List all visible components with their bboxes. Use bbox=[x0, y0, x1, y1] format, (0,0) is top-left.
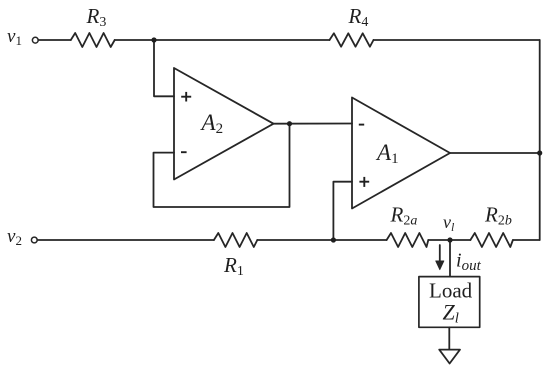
resistor R3 bbox=[71, 33, 115, 47]
op-amp A2 bbox=[174, 68, 274, 180]
wire right rail down bbox=[539, 40, 541, 240]
node C junction bbox=[331, 237, 336, 242]
arrow iout bbox=[439, 245, 441, 262]
wire R4 to top-right corner bbox=[374, 39, 540, 41]
wire node A down to A2 plus input bbox=[154, 40, 174, 96]
load Zl box bbox=[419, 277, 480, 328]
node A junction bbox=[151, 37, 156, 42]
wire A2 output to A1 minus input bbox=[274, 123, 353, 125]
node vl junction bbox=[447, 237, 452, 242]
wire v1 to R3 bbox=[38, 39, 71, 41]
resistor R4 bbox=[330, 33, 374, 46]
wire R3 to node A bbox=[115, 39, 154, 41]
terminal v1 bbox=[32, 37, 38, 43]
op-amp A1 bbox=[352, 98, 450, 209]
resistor R1 bbox=[214, 233, 257, 247]
op-amp A1 plus sign bbox=[359, 181, 369, 183]
wire A2 minus feedback loop bbox=[154, 124, 290, 207]
wire R2b to right rail corner bbox=[513, 239, 540, 241]
wire A1 output to right rail bbox=[450, 152, 540, 154]
op-amp A1 minus sign bbox=[359, 124, 364, 126]
op-amp A2 minus sign bbox=[181, 151, 187, 153]
resistor R2a bbox=[387, 233, 429, 247]
wire node C to R2a bbox=[333, 239, 386, 241]
wire A1 plus input down to node C bbox=[333, 182, 352, 240]
wire R1 to node C bbox=[257, 239, 333, 241]
node D junction A1 output on rail bbox=[537, 150, 542, 155]
wire node vl down to load bbox=[449, 240, 451, 277]
op-amp A2 plus sign bbox=[181, 96, 191, 98]
resistor R2b bbox=[470, 233, 513, 247]
terminal v2 bbox=[31, 237, 37, 243]
wire R2a to node vl bbox=[428, 239, 470, 241]
node B junction A2 output bbox=[287, 121, 292, 126]
wire node A to R4 bbox=[154, 39, 330, 41]
wire v2 to R1 bbox=[37, 239, 214, 241]
ground bbox=[439, 350, 460, 364]
wire load to ground bbox=[448, 327, 450, 349]
